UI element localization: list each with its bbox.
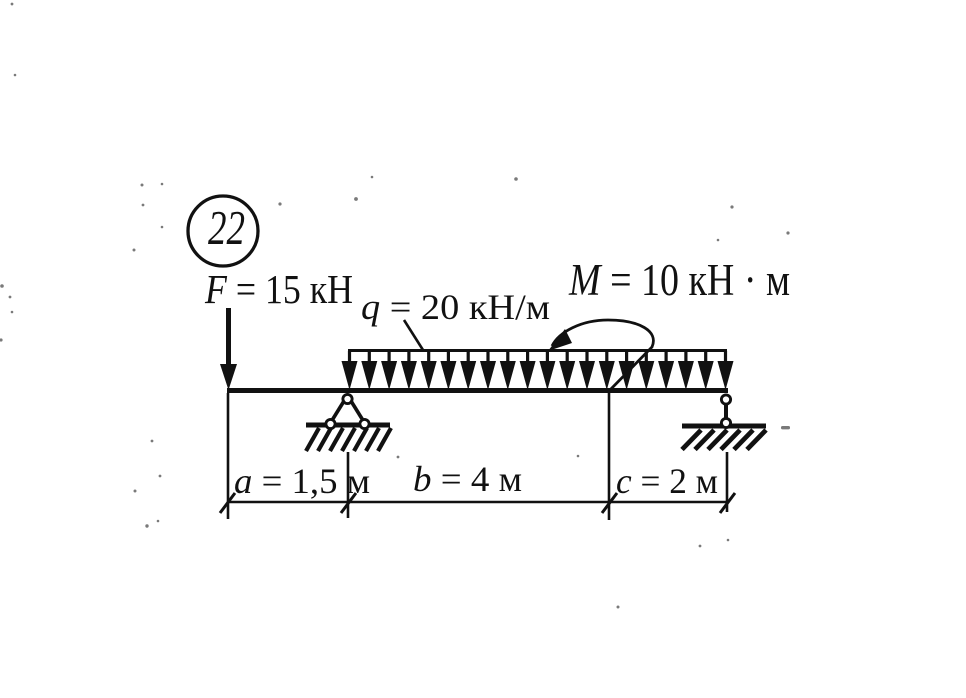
force F arrow bbox=[220, 308, 237, 390]
extension line at beam left end bbox=[227, 393, 230, 519]
dimension tick marks bbox=[220, 493, 735, 513]
dimension label b = 4 m bbox=[413, 459, 522, 499]
svg-text:c = 2 м: c = 2 м bbox=[616, 461, 718, 501]
leader line from q label to load bbox=[404, 320, 423, 350]
beam bbox=[227, 388, 728, 393]
roller support ground hatching bbox=[682, 426, 766, 450]
label F = 15 kN bbox=[204, 266, 353, 312]
pin support ground hatching bbox=[306, 425, 391, 451]
distributed load arrows bbox=[342, 351, 734, 390]
svg-text:a = 1,5 м: a = 1,5 м bbox=[234, 461, 370, 501]
svg-text:M = 10 кН · м: M = 10 кН · м bbox=[568, 255, 790, 305]
roller support bbox=[721, 395, 730, 428]
pin support (hinge) bbox=[326, 394, 369, 428]
dimension label a = 1,5 m bbox=[234, 461, 370, 501]
dimension label c = 2 m bbox=[616, 461, 718, 501]
extension line below pin support bbox=[347, 452, 350, 518]
scan specks bbox=[0, 3, 790, 609]
extension line at load end / moment point bbox=[608, 393, 611, 520]
label q = 20 kN/m bbox=[361, 287, 550, 327]
svg-text:b = 4 м: b = 4 м bbox=[413, 459, 522, 499]
distributed load q top line bbox=[348, 350, 727, 366]
extension line below roller support bbox=[726, 452, 729, 512]
svg-text:q = 20 кН/м: q = 20 кН/м bbox=[361, 287, 550, 327]
dimension line bbox=[227, 501, 728, 504]
label M = 10 kN·m bbox=[568, 255, 790, 305]
svg-text:F = 15 кН: F = 15 кН bbox=[204, 266, 353, 312]
moment M arrow bbox=[548, 320, 653, 391]
problem number circle 22 bbox=[188, 196, 258, 266]
svg-text:22: 22 bbox=[208, 200, 245, 255]
